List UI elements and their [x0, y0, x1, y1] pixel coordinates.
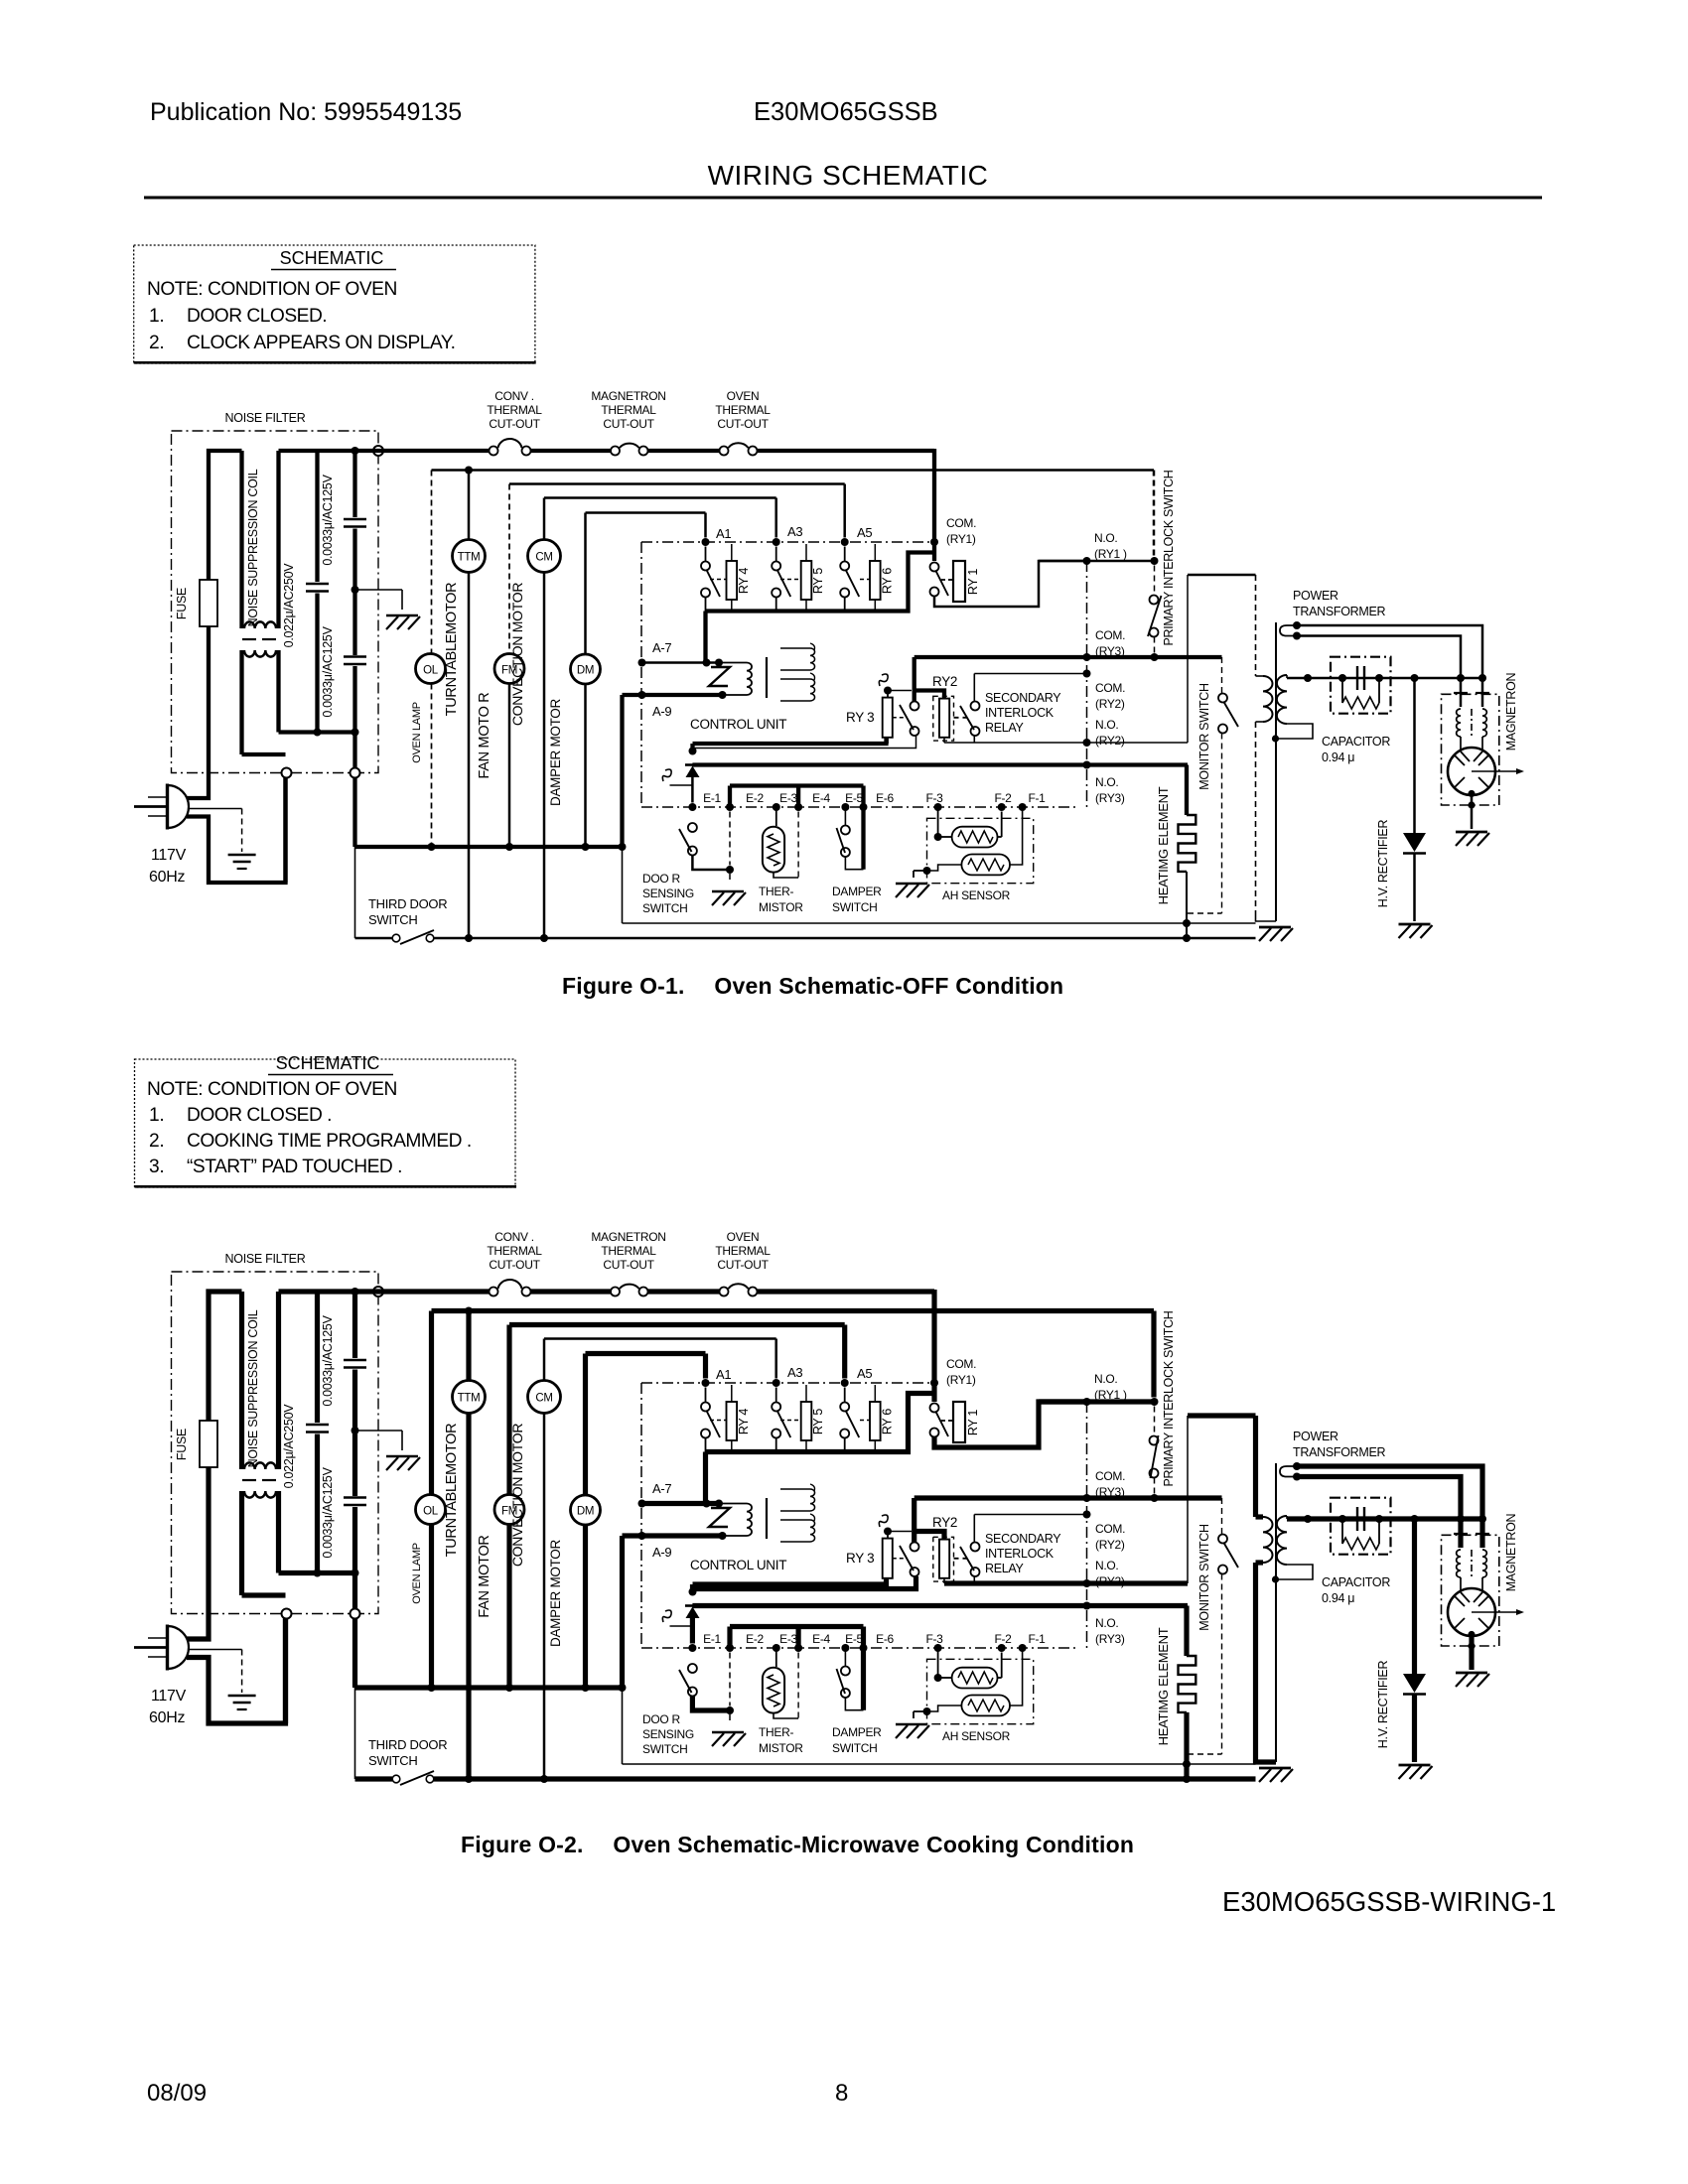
node heating element bottom [1183, 1760, 1191, 1768]
svg-text:FAN MOTOR: FAN MOTOR [477, 1535, 492, 1617]
wire COM.(RY3) row [914, 1495, 1222, 1500]
wire A-7 row [638, 659, 724, 667]
wire plug earth lead [189, 1650, 242, 1694]
turntable motor branch wire [468, 471, 471, 939]
svg-text:RY 4: RY 4 [737, 1409, 751, 1434]
node N.O. RY1 right [1151, 1398, 1159, 1406]
svg-text:E-4: E-4 [812, 791, 830, 805]
svg-text:RY 1: RY 1 [966, 1410, 980, 1435]
svg-text:CM: CM [535, 1393, 552, 1405]
svg-text:RY 5: RY 5 [811, 568, 825, 594]
svg-text:OVEN LAMP: OVEN LAMP [411, 702, 423, 763]
label DAMPER SWITCH [832, 885, 882, 914]
node turntable feeder junction [465, 467, 473, 475]
svg-text:(RY1 ): (RY1 ) [1094, 547, 1127, 561]
svg-text:RY2: RY2 [932, 1515, 957, 1530]
node bus A-9 corner [619, 1684, 627, 1692]
svg-text:CONTROL UNIT: CONTROL UNIT [690, 717, 786, 732]
control unit transformer secondary windings [780, 643, 815, 701]
svg-text:MISTOR: MISTOR [759, 900, 803, 914]
node E row 851 [841, 1644, 849, 1652]
capacitor 0.94u with bleeder [1331, 1498, 1391, 1555]
control unit boundary left (dash-dot) [640, 542, 642, 807]
label COM. (RY2) [1095, 1522, 1125, 1552]
relay RY2 contact [900, 702, 919, 737]
svg-text:A5: A5 [857, 1366, 872, 1381]
node A3 [773, 1379, 780, 1387]
note box 2 [135, 1059, 517, 1188]
svg-text:(RY1 ): (RY1 ) [1094, 1388, 1127, 1402]
oven lamp OL branch wire [429, 1311, 434, 1689]
wire E2-E6 bold rail [730, 1627, 864, 1710]
svg-text:N.O.: N.O. [1095, 775, 1118, 789]
svg-text:WIRING SCHEMATIC: WIRING SCHEMATIC [708, 160, 989, 191]
wire chassis tap and ground inside noise filter [352, 586, 421, 629]
svg-text:OL: OL [423, 1506, 439, 1518]
svg-text:FUSE: FUSE [175, 588, 189, 619]
relay RY4 contact [701, 1388, 727, 1452]
ground at AH sensor [896, 871, 929, 897]
node N.O. RY2 [1083, 739, 1091, 747]
svg-text:CAPACITOR: CAPACITOR [1322, 1575, 1390, 1589]
svg-text:N.O.: N.O. [1094, 1372, 1117, 1386]
wire N.O.(RY2) row [944, 1578, 1188, 1583]
relay RY1 contact [930, 1404, 949, 1437]
wire RY1 to N.O.(RY1) net [934, 1402, 1087, 1447]
node E row 1009 [998, 803, 1006, 811]
node HV bus 1424 [1411, 674, 1419, 682]
node COM RY2 [1083, 670, 1091, 678]
svg-text:0.0033μ/AC125V: 0.0033μ/AC125V [321, 1466, 335, 1558]
label N.O. (RY1 ) [1094, 531, 1127, 561]
svg-text:SECONDARY: SECONDARY [985, 691, 1061, 705]
H.V. rectifier diode [1403, 678, 1426, 921]
svg-text:E30MO65GSSB-WIRING-1: E30MO65GSSB-WIRING-1 [1222, 1886, 1556, 1917]
node E row 782 [773, 803, 780, 811]
svg-text:TRANSFORMER: TRANSFORMER [1293, 605, 1386, 618]
control unit transformer primary [709, 1504, 752, 1537]
power transformer core and secondary winding [1272, 622, 1313, 921]
convection motor CM [528, 540, 561, 573]
relay RY2 coil [933, 1537, 954, 1581]
relay RY6 coil [870, 1385, 894, 1452]
wire feeder to oven lamp and turntable motor [432, 1311, 1155, 1398]
svg-text:OVEN: OVEN [727, 389, 760, 403]
diode at door sensing line [685, 765, 700, 803]
conv thermal cut-out switch [490, 439, 531, 456]
svg-text:1.: 1. [149, 1105, 164, 1126]
svg-text:CUT-OUT: CUT-OUT [603, 1258, 654, 1272]
label THIRD DOOR SWITCH [368, 896, 447, 927]
wire N.O.(RY1) row [1039, 560, 1155, 563]
relay RY1 contact [930, 563, 949, 597]
earth ground at plug [228, 1696, 256, 1709]
fan motor FM [494, 1495, 524, 1525]
svg-text:POWER: POWER [1293, 1430, 1338, 1443]
node bottom rail CM [540, 934, 548, 942]
wire control unit to RY2 contact [693, 1576, 916, 1589]
capacitor C2 0.0033u/AC125V (upper) [344, 1292, 366, 1431]
svg-text:E-5: E-5 [845, 791, 863, 805]
node A1 [702, 538, 710, 546]
node HV bus 1471 [1457, 1515, 1465, 1523]
node E row 1009 [998, 1644, 1006, 1652]
label CONV THERMAL CUT-OUT [487, 389, 542, 431]
power transformer primary terminals [1280, 621, 1301, 640]
fuse F1 [200, 580, 217, 626]
power transformer primary terminals [1280, 1462, 1301, 1481]
svg-text:A-7: A-7 [652, 1481, 671, 1496]
node HV bus 1317 [1304, 1515, 1312, 1523]
magnetron thermal cut-out switch [611, 444, 648, 456]
svg-text:CUT-OUT: CUT-OUT [603, 417, 654, 431]
node HV bus 1493 [1478, 674, 1486, 682]
capacitor C1 0.022u/AC250V [279, 451, 355, 733]
svg-text:DM: DM [577, 665, 594, 677]
relay RY4 coil [727, 544, 751, 612]
open node noise filter left (on box bottom) [282, 1609, 292, 1619]
svg-text:RY 6: RY 6 [880, 568, 894, 594]
conv thermal cut-out switch [490, 1280, 531, 1297]
door sensing switch [679, 1653, 734, 1725]
node COM RY1 [930, 1379, 938, 1387]
svg-text:RY 3: RY 3 [846, 1551, 874, 1566]
relay RY3 coil [879, 1515, 912, 1584]
svg-text:MAGNETRON: MAGNETRON [591, 389, 665, 403]
plug 117V 60Hz [134, 1625, 189, 1671]
wire N.O.(RY3) row (to heating element) [692, 762, 1188, 766]
node bus FM [505, 843, 513, 851]
svg-text:OVEN LAMP: OVEN LAMP [411, 1543, 423, 1604]
svg-text:N.O.: N.O. [1095, 718, 1118, 732]
node COM RY3 left [1083, 1494, 1091, 1502]
label SECONDARY INTERLOCK RELAY [985, 691, 1061, 735]
thermistor [763, 807, 798, 878]
svg-text:DOOR CLOSED.: DOOR CLOSED. [187, 306, 327, 327]
wire top line bus [279, 449, 935, 453]
svg-text:A-9: A-9 [652, 704, 671, 719]
heating element [1179, 765, 1196, 939]
svg-text:SENSING: SENSING [642, 1727, 694, 1741]
relay RY6 contact [840, 1388, 869, 1452]
svg-text:SWITCH: SWITCH [832, 900, 878, 914]
label N.O. (RY2) [1095, 1559, 1125, 1588]
label POWER TRANSFORMER [1293, 589, 1386, 618]
wire plug earth lead [189, 809, 242, 853]
node E row 735 [726, 1644, 734, 1652]
svg-text:F-3: F-3 [925, 791, 943, 805]
damper switch [837, 1648, 864, 1710]
svg-text:E-4: E-4 [812, 1632, 830, 1646]
svg-text:MAGNETRON: MAGNETRON [1504, 672, 1518, 751]
svg-text:SWITCH: SWITCH [368, 912, 417, 927]
svg-text:TRANSFORMER: TRANSFORMER [1293, 1445, 1386, 1459]
turntable motor TTM [453, 1381, 486, 1414]
svg-text:COOKING TIME PROGRAMMED .: COOKING TIME PROGRAMMED . [187, 1131, 472, 1152]
label SECONDARY INTERLOCK RELAY [985, 1532, 1061, 1575]
node E row 870 [860, 803, 868, 811]
svg-text:E-6: E-6 [876, 1632, 894, 1646]
control unit boundary right (dash-dot) [1086, 1402, 1088, 1648]
svg-text:(RY1): (RY1) [946, 1373, 976, 1387]
svg-text:F-3: F-3 [925, 1632, 943, 1646]
label COM. (RY2) [1095, 681, 1125, 711]
wire A-7 row [638, 1500, 724, 1508]
wire bottom bus [355, 1685, 623, 1690]
node turntable feeder junction [465, 1307, 473, 1315]
svg-text:A-7: A-7 [652, 640, 671, 655]
wire bottom rail upper [623, 922, 1256, 924]
svg-text:1.: 1. [149, 306, 164, 327]
svg-text:2.: 2. [149, 1131, 164, 1152]
svg-text:THIRD DOOR: THIRD DOOR [368, 1737, 447, 1752]
node bottom rail TTM [465, 934, 473, 942]
node E row 851 [841, 803, 849, 811]
svg-text:CONV .: CONV . [494, 1230, 534, 1244]
primary interlock switch [1150, 1407, 1159, 1494]
fan motor FM [494, 654, 524, 684]
svg-text:(RY3): (RY3) [1095, 791, 1125, 805]
svg-text:E-6: E-6 [876, 791, 894, 805]
svg-text:SECONDARY: SECONDARY [985, 1532, 1061, 1546]
node HV bus 1352 [1338, 1515, 1346, 1523]
control unit boundary right (dash-dot) [1086, 561, 1088, 807]
node A1 [702, 1379, 710, 1387]
node E row 735 [726, 803, 734, 811]
wire COM.(RY2) row [974, 673, 1086, 675]
label COM. (RY3) [1095, 628, 1125, 658]
thermistor [763, 1648, 798, 1718]
oven thermal cut-out switch [720, 1284, 758, 1296]
capacitor C1 0.022u/AC250V [279, 1292, 355, 1573]
monitor switch [1188, 575, 1256, 913]
oven lamp OL [416, 654, 446, 684]
svg-text:0.0033μ/AC125V: 0.0033μ/AC125V [321, 625, 335, 717]
svg-text:CLOCK APPEARS ON DISPLAY.: CLOCK APPEARS ON DISPLAY. [187, 333, 455, 353]
ground at door sensing [712, 1732, 746, 1746]
wire line feed to relay RY1 common [931, 1290, 936, 1402]
svg-text:0.022μ/AC250V: 0.022μ/AC250V [282, 563, 296, 648]
relay RY4 contact [701, 547, 727, 612]
svg-text:NOISE FILTER: NOISE FILTER [225, 1252, 306, 1266]
relay RY2 contact [900, 1543, 919, 1577]
relay RY4 coil [727, 1385, 751, 1452]
fan motor branch wire [506, 1325, 511, 1689]
svg-text:COM.: COM. [1095, 1522, 1125, 1536]
noise suppression coil L1 (common-mode choke) [242, 1292, 286, 1595]
note box 1 text [147, 248, 455, 353]
svg-text:DM: DM [577, 1506, 594, 1518]
relay RY6 contact [840, 547, 869, 612]
ground at door sensing [712, 891, 746, 905]
svg-text:A-9: A-9 [652, 1545, 671, 1560]
svg-text:Figure O-2. Oven Schematic-Mi: Figure O-2. Oven Schematic-Microwave Coo… [461, 1832, 1134, 1857]
svg-text:CM: CM [535, 552, 552, 564]
svg-text:(RY2): (RY2) [1095, 1574, 1125, 1588]
convection motor CM [528, 1381, 561, 1414]
svg-text:0.022μ/AC250V: 0.022μ/AC250V [282, 1404, 296, 1489]
damper switch [837, 807, 864, 870]
node E row 697 [688, 1644, 696, 1652]
svg-text:(RY3): (RY3) [1095, 644, 1125, 658]
wire bottom rail lower with third door switch [355, 847, 1256, 944]
node bus DM [582, 843, 590, 851]
wire A-9 row [623, 1532, 727, 1540]
svg-text:THERMAL: THERMAL [715, 403, 771, 417]
control unit transformer core [766, 1498, 768, 1539]
svg-text:SWITCH: SWITCH [368, 1753, 417, 1768]
wire A-9 return drop to bottom bus [620, 695, 624, 923]
svg-text:(RY1): (RY1) [946, 532, 976, 546]
wire control unit to RY3 (bold rail) [689, 738, 887, 755]
damper motor branch wire [583, 1354, 588, 1689]
svg-text:RELAY: RELAY [985, 721, 1025, 735]
svg-text:CONTROL UNIT: CONTROL UNIT [690, 1558, 786, 1572]
svg-text:COM.: COM. [1095, 681, 1125, 695]
node N.O. RY3 [1083, 761, 1091, 769]
node N.O. RY1 right [1151, 557, 1159, 565]
damper motor DM [571, 654, 601, 684]
power transformer core and secondary winding [1272, 1463, 1313, 1762]
AH sensor assembly [923, 1648, 1034, 1724]
svg-text:MONITOR SWITCH: MONITOR SWITCH [1197, 1524, 1211, 1631]
plug 117V 60Hz [134, 784, 189, 830]
noise filter enclosure (dash-dot box) [172, 1272, 379, 1614]
turntable motor TTM [453, 540, 486, 573]
wire top line bus [279, 1289, 935, 1294]
node HV bus 1389 [1375, 1515, 1383, 1523]
svg-text:Figure O-1. Oven Schematic-OF: Figure O-1. Oven Schematic-OFF Condition [562, 973, 1063, 999]
label THERMISTOR [759, 1725, 803, 1755]
svg-text:MAGNETRON: MAGNETRON [1504, 1513, 1518, 1591]
label DOOR SENSING SWITCH [642, 1712, 694, 1756]
wire bottom bus [355, 845, 623, 849]
wire feeder convection motor to A3 [544, 1339, 776, 1379]
node line bus entry [352, 1288, 359, 1296]
svg-text:MISTOR: MISTOR [759, 1741, 803, 1755]
svg-text:F-2: F-2 [994, 791, 1012, 805]
wire feeder convection motor to A3 [544, 498, 776, 538]
wire high voltage bus [1287, 677, 1482, 680]
wire RY1 to N.O.(RY1) net [934, 561, 1087, 607]
label N.O. (RY2) [1095, 718, 1125, 748]
node bottom rail heating [1183, 1775, 1191, 1783]
label N.O. (RY3) [1095, 1616, 1125, 1646]
node A5 [841, 538, 849, 546]
svg-text:PRIMARY INTERLOCK SWITCH: PRIMARY INTERLOCK SWITCH [1162, 1310, 1176, 1486]
control unit boundary bottom E row (dash-dot) [641, 1647, 1079, 1649]
wire control unit to RY3 (bold rail) [689, 1578, 887, 1596]
node E row 945 [934, 803, 942, 811]
node junction capacitor bottom rail [314, 729, 322, 737]
svg-text:DOOR CLOSED .: DOOR CLOSED . [187, 1105, 332, 1126]
label THERMISTOR [759, 885, 803, 914]
svg-text:OL: OL [423, 665, 439, 677]
label DOOR SENSING SWITCH [642, 872, 694, 915]
svg-text:DAMPER: DAMPER [832, 1725, 882, 1739]
node E row 782 [773, 1644, 780, 1652]
svg-text:NOTE: CONDITION OF OVEN: NOTE: CONDITION OF OVEN [147, 279, 397, 300]
node A5 [841, 1379, 849, 1387]
wire filament lead A [1297, 625, 1482, 677]
svg-text:08/09: 08/09 [147, 2080, 207, 2107]
svg-text:E-3: E-3 [779, 791, 797, 805]
control unit boundary left (dash-dot) [640, 1383, 642, 1648]
wire A1 rail drop to control unit [703, 612, 707, 663]
svg-text:OVEN: OVEN [727, 1230, 760, 1244]
svg-text:TURNTABLEMOTOR: TURNTABLEMOTOR [444, 1424, 460, 1558]
ground at H.V. rectifier [1399, 1765, 1433, 1779]
magnetron assembly [1442, 1519, 1525, 1670]
monitor switch [1188, 1416, 1256, 1754]
node HV bus 1471 [1457, 674, 1465, 682]
node COM RY3 right [1151, 653, 1159, 661]
svg-text:MONITOR SWITCH: MONITOR SWITCH [1197, 683, 1211, 790]
svg-text:SWITCH: SWITCH [832, 1741, 878, 1755]
secondary interlock relay contact [954, 674, 980, 744]
secondary interlock relay contact [954, 1515, 980, 1584]
fuse F1 [200, 1421, 217, 1467]
node N.O. RY3 [1083, 1602, 1091, 1610]
svg-text:(RY2): (RY2) [1095, 697, 1125, 711]
svg-text:H.V. RECTIFIER: H.V. RECTIFIER [1376, 1661, 1390, 1749]
node COM RY3 right [1151, 1494, 1159, 1502]
ground at H.V. rectifier [1399, 924, 1433, 938]
svg-text:RY2: RY2 [932, 674, 957, 689]
title rule [144, 197, 1542, 200]
svg-text:CUT-OUT: CUT-OUT [717, 417, 769, 431]
wire control unit to RY2 contact [693, 736, 916, 749]
svg-text:CUT-OUT: CUT-OUT [489, 1258, 540, 1272]
svg-text:NOTE: CONDITION OF OVEN: NOTE: CONDITION OF OVEN [147, 1079, 397, 1100]
svg-text:THERMAL: THERMAL [601, 403, 656, 417]
wire COM.(RY2) row [974, 1514, 1086, 1516]
svg-text:SCHEMATIC: SCHEMATIC [280, 248, 384, 268]
svg-text:A1: A1 [716, 526, 731, 541]
label OVEN THERMAL CUT-OUT [715, 1230, 771, 1272]
ground at magnetron [1456, 832, 1489, 846]
svg-text:RELAY: RELAY [985, 1562, 1025, 1575]
node E row 870 [860, 1644, 868, 1652]
label CONV THERMAL CUT-OUT [487, 1230, 542, 1272]
capacitor C3 0.0033u/AC125V (lower) [344, 590, 366, 773]
node COM RY2 [1083, 1511, 1091, 1519]
control unit boundary row A (dash-dot) [641, 1382, 934, 1384]
label OVEN THERMAL CUT-OUT [715, 389, 771, 431]
svg-text:NOISE SUPPRESSION COIL: NOISE SUPPRESSION COIL [246, 1309, 260, 1467]
svg-text:E-2: E-2 [746, 791, 764, 805]
control unit transformer primary [709, 663, 752, 696]
ground at magnetron [1456, 1673, 1489, 1687]
wire COM.(RY3) row [914, 655, 1222, 659]
noise filter enclosure (dash-dot box) [172, 431, 379, 773]
node E row 1030 [1019, 1644, 1027, 1652]
node HV bus 1389 [1375, 674, 1383, 682]
capacitor C3 0.0033u/AC125V (lower) [344, 1431, 366, 1614]
wire neutral input (plug bottom prong, bottom left run) [187, 1619, 286, 1724]
svg-text:2.: 2. [149, 333, 164, 353]
svg-text:E-1: E-1 [703, 1632, 721, 1646]
open node noise filter right (on box bottom) [351, 768, 360, 778]
label 117V 60Hz [149, 847, 187, 886]
node bus OL [428, 1684, 436, 1692]
capacitor 0.94u with bleeder [1331, 657, 1391, 714]
svg-text:60Hz: 60Hz [149, 1709, 185, 1726]
svg-text:F-1: F-1 [1028, 1632, 1046, 1646]
svg-text:AH SENSOR: AH SENSOR [942, 1729, 1011, 1743]
svg-text:E-3: E-3 [779, 1632, 797, 1646]
wire relay bus to control unit A rail [706, 553, 933, 612]
